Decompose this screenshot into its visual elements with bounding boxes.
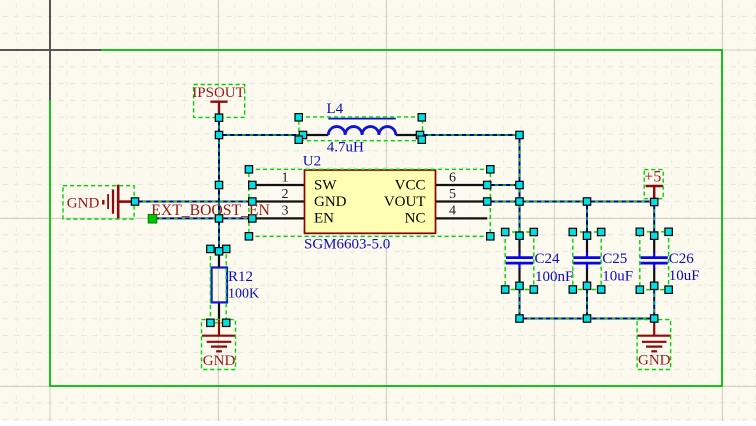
svg-text:SW: SW <box>314 177 337 193</box>
svg-text:+5: +5 <box>644 169 661 186</box>
svg-text:1: 1 <box>282 170 289 185</box>
svg-text:EXT_BOOST_EN: EXT_BOOST_EN <box>151 202 270 219</box>
svg-text:R12: R12 <box>228 269 253 285</box>
svg-text:C25: C25 <box>602 251 627 267</box>
svg-text:SGM6603-5.0: SGM6603-5.0 <box>304 236 390 252</box>
svg-text:GND: GND <box>67 195 100 211</box>
svg-text:EN: EN <box>314 210 334 226</box>
svg-text:100nF: 100nF <box>535 269 573 285</box>
svg-text:10uF: 10uF <box>669 268 700 284</box>
svg-text:10uF: 10uF <box>602 268 633 284</box>
svg-text:IPSOUT: IPSOUT <box>192 85 245 101</box>
svg-text:3: 3 <box>282 204 289 219</box>
svg-text:100K: 100K <box>228 287 259 302</box>
svg-text:C26: C26 <box>669 251 695 267</box>
svg-text:GND: GND <box>203 353 236 369</box>
svg-text:GND: GND <box>638 353 671 369</box>
svg-text:4: 4 <box>449 204 456 219</box>
svg-text:U2: U2 <box>303 154 321 170</box>
svg-text:L4: L4 <box>327 101 344 117</box>
svg-text:VCC: VCC <box>395 177 426 193</box>
svg-text:NC: NC <box>405 210 426 226</box>
svg-text:6: 6 <box>449 170 456 185</box>
svg-text:GND: GND <box>314 194 347 210</box>
svg-text:2: 2 <box>282 187 289 202</box>
svg-text:4.7uH: 4.7uH <box>327 140 364 156</box>
svg-text:5: 5 <box>449 187 456 202</box>
svg-text:C24: C24 <box>535 251 561 267</box>
svg-text:VOUT: VOUT <box>384 194 426 210</box>
